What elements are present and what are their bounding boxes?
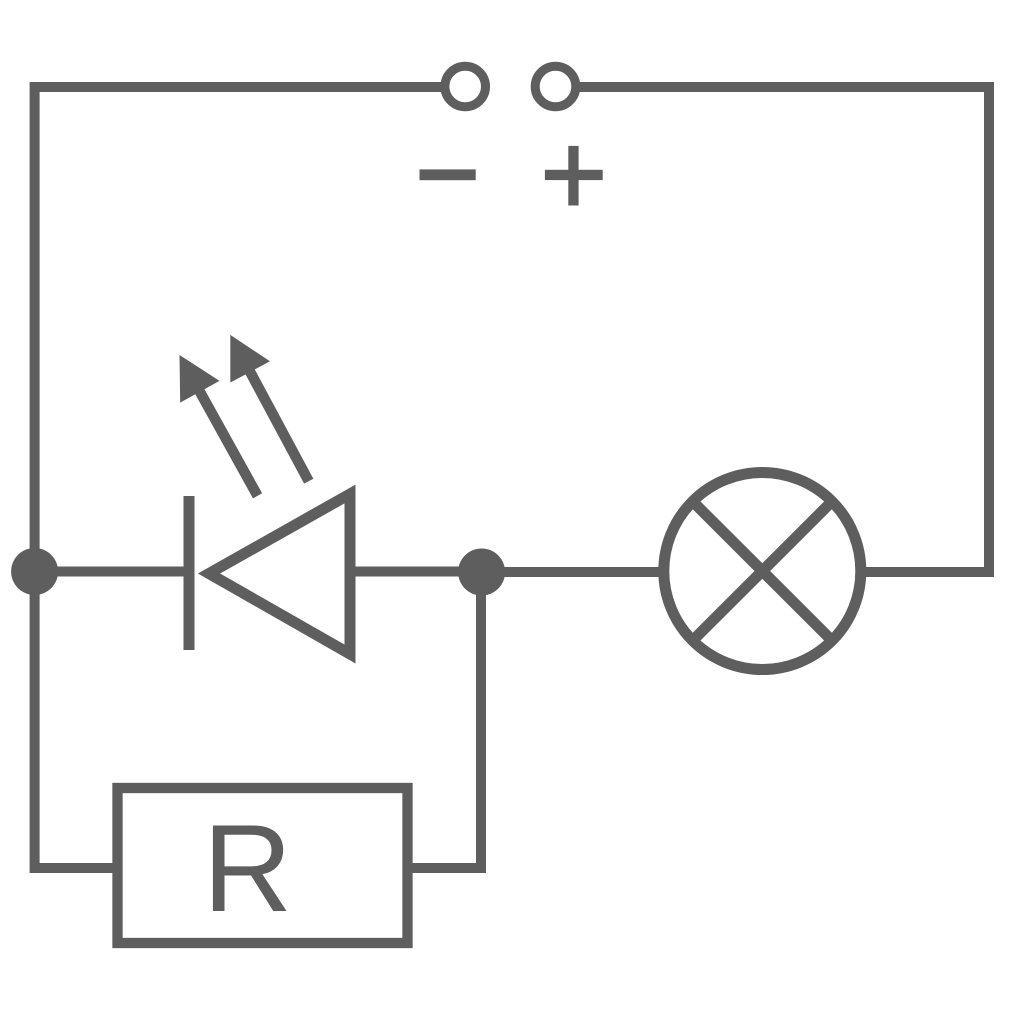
- wire node B down to resistor: [410, 572, 481, 868]
- battery plus label: [545, 146, 603, 206]
- wire left loop (top-left, left side, to resistor): [35, 87, 445, 868]
- LED D1 arrow 1: [160, 344, 277, 507]
- wire right loop (top-right, right side, to lamp): [576, 87, 989, 572]
- lamp L1 cross: [693, 501, 832, 640]
- wire LED anode to node B: [350, 567, 482, 577]
- node A junction dot: [11, 548, 58, 595]
- lamp L1 circle: [664, 473, 861, 670]
- battery BT1 negative terminal: [445, 66, 486, 107]
- node B junction dot: [458, 549, 505, 596]
- wire node A to LED cathode: [35, 567, 188, 577]
- battery minus label: [420, 169, 476, 180]
- LED D1 arrow 2: [210, 324, 328, 492]
- wire node B to lamp: [482, 567, 662, 577]
- LED D1 triangle: [209, 494, 350, 654]
- resistor R box: [118, 788, 408, 943]
- battery BT1 positive terminal: [535, 66, 576, 107]
- LED D1 cathode bar: [184, 496, 195, 650]
- svg-text:R: R: [203, 800, 293, 938]
